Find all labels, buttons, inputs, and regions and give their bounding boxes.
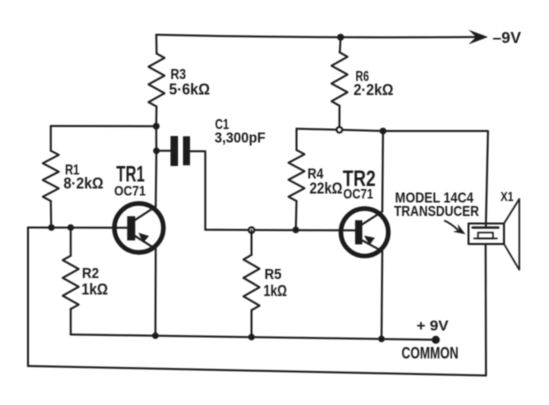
label R6 value — [354, 68, 394, 99]
resistor R4 — [289, 129, 305, 230]
label R1 value — [64, 162, 104, 193]
label R4 value — [308, 166, 343, 198]
wire TR2 collector vertical — [381, 131, 384, 212]
svg-text:5·6kΩ: 5·6kΩ — [169, 82, 210, 99]
wire mid row R4 to transducer corner — [297, 129, 489, 224]
junction node C1 left plate — [153, 148, 160, 155]
svg-text:X1: X1 — [501, 190, 514, 204]
junction node TR1 emitter at rail — [152, 332, 159, 339]
junction node R1 bottom — [48, 224, 55, 231]
transistor TR1 — [114, 203, 163, 252]
label R2 value — [82, 265, 109, 299]
svg-text:1kΩ: 1kΩ — [264, 283, 288, 300]
terminal dot +9V COMMON — [432, 336, 440, 344]
junction node R5 bottom — [248, 334, 255, 341]
transistor TR2 — [341, 209, 388, 256]
wire from node to R1 top — [51, 125, 156, 127]
resistor R3 — [149, 35, 165, 126]
svg-text:+ 9V: + 9V — [417, 318, 449, 335]
node R5 top (hollow) — [249, 227, 254, 232]
transducer X1 — [469, 199, 520, 270]
wire outer bottom return — [28, 366, 486, 376]
wire left vertical branch — [27, 228, 29, 367]
wire outer right vertical to transducer — [485, 244, 487, 376]
svg-text:OC71: OC71 — [343, 186, 373, 202]
annotation arrow to transducer — [445, 221, 466, 234]
svg-text:R3: R3 — [171, 66, 187, 83]
svg-text:3,300pF: 3,300pF — [215, 129, 266, 146]
node R6 bottom (hollow) — [337, 127, 342, 132]
capacitor C1 — [156, 136, 205, 230]
junction node TR2 collector top — [380, 128, 387, 135]
label MODEL 14C4 TRANSDUCER — [394, 189, 479, 220]
label R5 value — [264, 266, 288, 300]
resistor R2 — [63, 228, 79, 335]
junction node R4 bottom — [292, 227, 299, 234]
resistor R6 — [332, 37, 348, 130]
wire inner bottom rail — [71, 335, 436, 340]
svg-text:2·2kΩ: 2·2kΩ — [354, 82, 394, 99]
svg-text:1kΩ: 1kΩ — [82, 282, 109, 299]
label C1 value — [215, 116, 266, 147]
wire TR1 base from left rail — [28, 227, 128, 229]
svg-text:TRANSDUCER: TRANSDUCER — [394, 203, 479, 220]
junction node TR2 emitter at rail — [378, 336, 385, 343]
wire TR2 emitter vertical — [381, 251, 384, 339]
arrowhead -9V supply — [469, 30, 489, 45]
svg-text:R2: R2 — [82, 265, 99, 282]
svg-text:COMMON: COMMON — [402, 345, 459, 363]
resistor R1 — [43, 126, 59, 228]
svg-text:R5: R5 — [265, 266, 282, 283]
wire TR2 base row from C1 — [205, 229, 355, 232]
svg-text:22kΩ: 22kΩ — [310, 181, 343, 198]
wire top supply rail — [156, 35, 480, 38]
junction node R3/collector/R1 — [153, 123, 160, 130]
label TR1 — [114, 162, 146, 199]
resistor R5 — [244, 230, 260, 337]
label TR2 — [343, 166, 376, 202]
svg-text:–9V: –9V — [493, 30, 522, 47]
svg-text:8·2kΩ: 8·2kΩ — [64, 176, 104, 193]
wire TR1 emitter down to bottom rail — [154, 249, 156, 336]
junction node R6 top at rail — [337, 34, 344, 41]
label R3 value — [169, 66, 210, 99]
wire TR1 collector to node — [155, 126, 158, 206]
junction node R2 top — [67, 224, 74, 231]
svg-text:OC71: OC71 — [114, 183, 146, 199]
